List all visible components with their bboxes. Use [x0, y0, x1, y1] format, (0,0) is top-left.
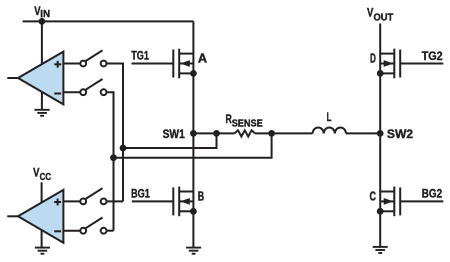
- wire: SW1 to RSENSE left lead: [193, 132, 234, 134]
- wire: U1 - input to switch S1b: [62, 91, 80, 93]
- wire: VIN top rail to MOSFET A drain: [23, 20, 194, 22]
- svg-text:B: B: [198, 190, 204, 204]
- node: SW2 dot: [377, 130, 384, 137]
- op-amp U1 (VIN powered): [18, 52, 63, 105]
- wire: inductor to SW2: [346, 132, 380, 134]
- wire: U2 output stub: [7, 215, 18, 217]
- wire: U1 output stub: [7, 77, 18, 79]
- transistor B (bottom-left NMOS, gate left): [173, 187, 197, 217]
- svg-text:L: L: [327, 112, 332, 124]
- node: dot on upper sense rail: [120, 145, 127, 152]
- svg-text:C: C: [370, 190, 377, 204]
- wire: sense rail upper (left of RSENSE): [123, 133, 217, 148]
- svg-text:BG2: BG2: [422, 189, 442, 201]
- transistor A (top-left NMOS, gate left): [173, 49, 197, 79]
- wire: switch S2a output to upper sense vertical: [107, 200, 124, 202]
- svg-text:CC: CC: [40, 172, 52, 183]
- svg-text:BG1: BG1: [131, 189, 150, 201]
- node: RSENSE right dot: [268, 130, 275, 137]
- wire: switch S2b output to lower sense vertical: [107, 230, 114, 232]
- wire: main left vertical (A drain/source, SW1, B drain/source): [192, 21, 194, 247]
- transistor D (top-right NMOS, gate right): [377, 49, 400, 79]
- wire: VCC feed down through op-amp U2 to ground: [41, 182, 43, 247]
- wire: VIN feed down through op-amp U1 to ground: [41, 18, 43, 110]
- inductor L: [313, 127, 346, 133]
- switch S1a (U1 + input): [80, 50, 106, 66]
- svg-text:SENSE: SENSE: [232, 119, 264, 130]
- wire: switch S1a output down to node at sense rail: [107, 64, 124, 202]
- wire: VOUT feed / main right vertical (D drain/source, SW2, C drain/source): [379, 24, 381, 247]
- node: dot on lower sense rail: [110, 154, 117, 161]
- ground (below transistor C): [373, 247, 388, 253]
- svg-text:D: D: [370, 52, 376, 66]
- wire: U2 - input to switch S2b: [62, 230, 80, 232]
- svg-text:IN: IN: [40, 9, 50, 20]
- transistor C (bottom-right NMOS, gate right): [377, 187, 400, 217]
- resistor RSENSE: [235, 130, 256, 136]
- wire: TG2 gate wire from MOSFET D: [400, 63, 443, 65]
- svg-text:SW1: SW1: [163, 129, 186, 141]
- svg-text:OUT: OUT: [374, 12, 394, 23]
- wire: RSENSE right lead to inductor: [255, 132, 313, 134]
- wire: BG2 gate wire from MOSFET C: [400, 200, 443, 202]
- svg-text:TG1: TG1: [131, 51, 149, 63]
- node: VIN junction dot: [39, 18, 46, 25]
- switch S2a (U2 + input): [80, 188, 106, 204]
- ground (U2): [35, 248, 50, 254]
- svg-text:SW2: SW2: [387, 129, 413, 141]
- wire: sense rail lower (right of RSENSE): [114, 133, 272, 157]
- wire: U2 + input to switch S2a: [62, 200, 80, 202]
- wire: TG1 gate wire to MOSFET A: [132, 63, 174, 65]
- wire: switch S1b output down to node at sense rail: [107, 92, 114, 231]
- node: SW1 dot: [190, 130, 197, 137]
- wire: U1 + input to switch S1a: [62, 63, 80, 65]
- switch S1b (U1 - input): [80, 79, 106, 95]
- op-amp U2 (VCC powered): [18, 190, 63, 243]
- svg-text:TG2: TG2: [422, 51, 443, 63]
- ground (U1): [34, 110, 49, 116]
- ground (below transistor B): [186, 248, 201, 254]
- switch S2b (U2 - input): [80, 218, 106, 234]
- svg-text:A: A: [198, 52, 207, 66]
- wire: BG1 gate wire to MOSFET B: [132, 200, 174, 202]
- node: RSENSE left dot: [213, 130, 220, 137]
